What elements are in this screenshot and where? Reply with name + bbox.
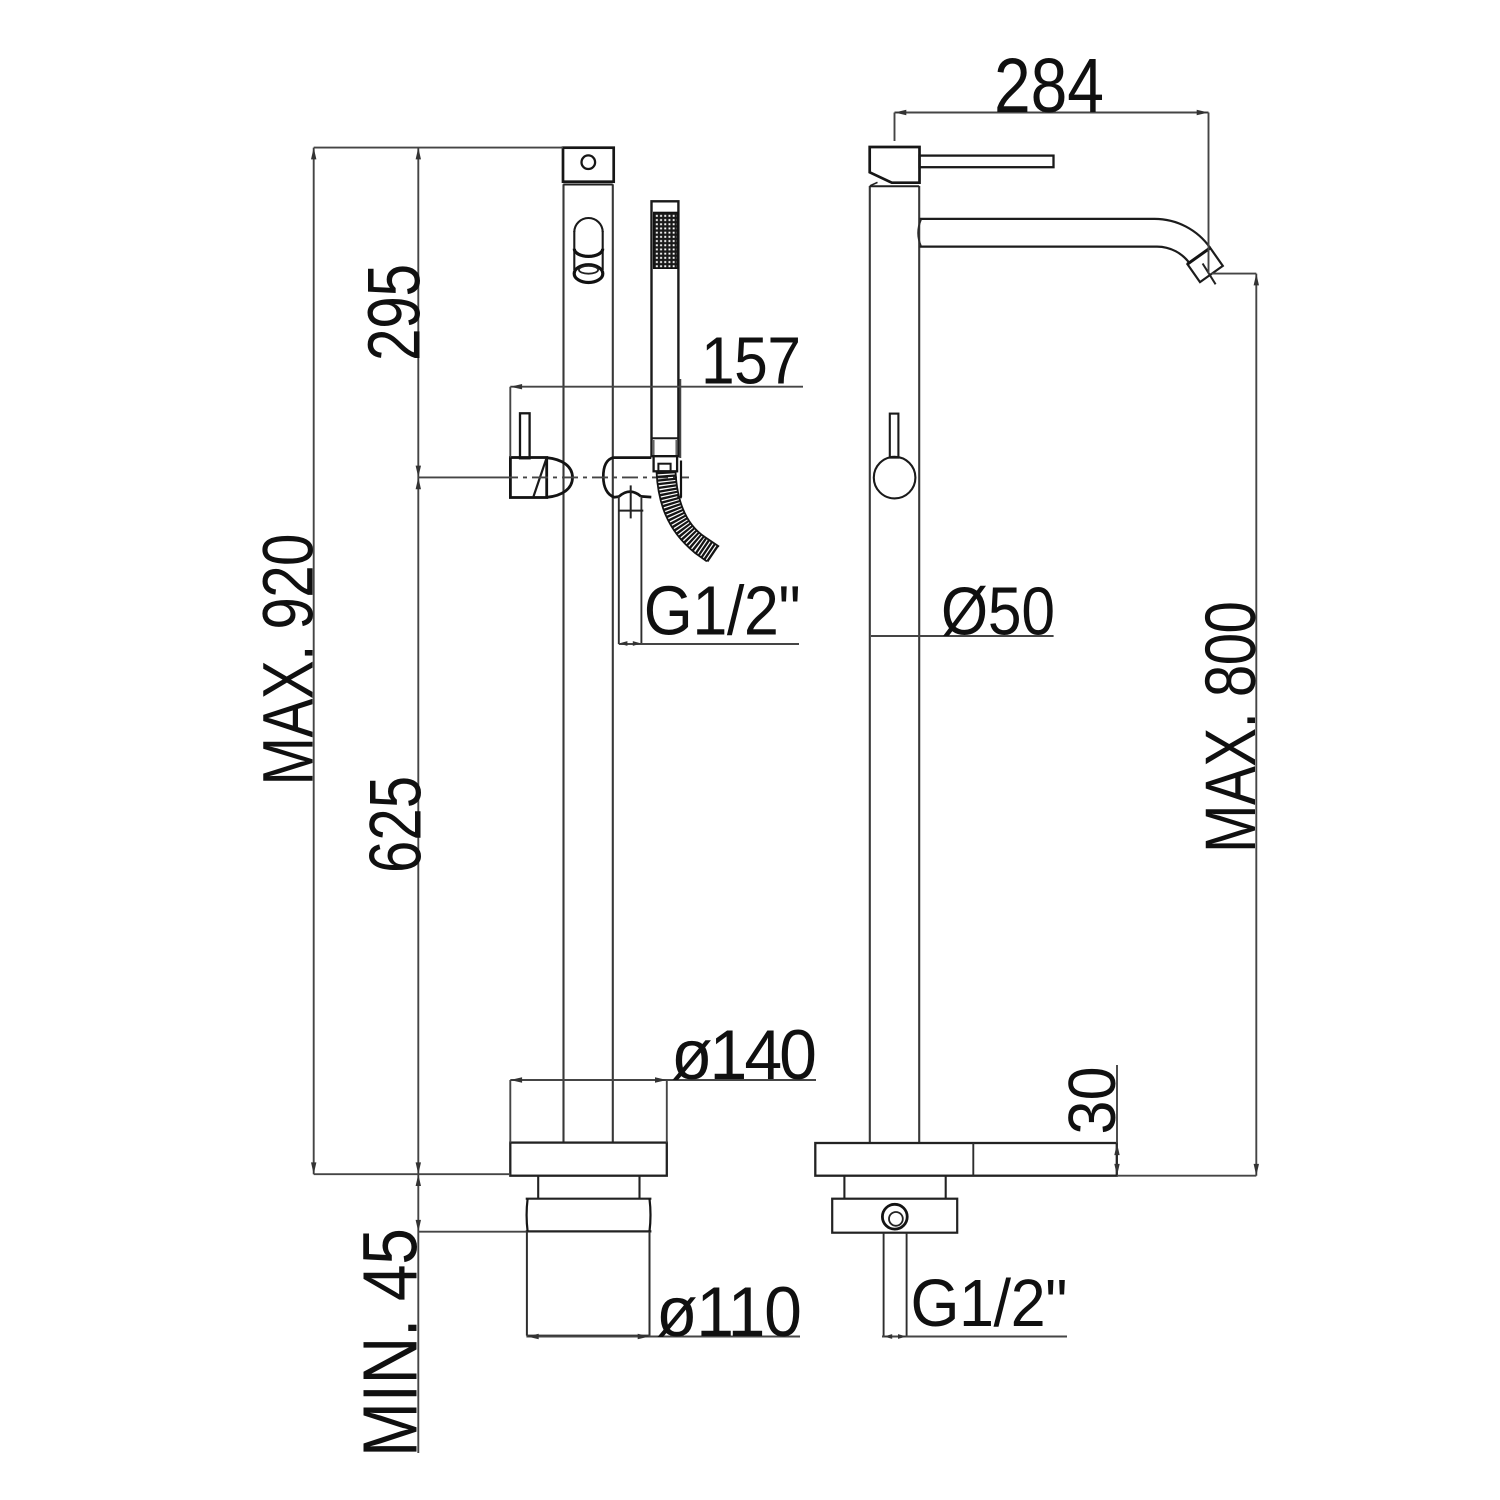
arrowhead 295 bottom [416,466,421,478]
handle collar lines [652,437,679,439]
157 left extension drop [509,387,511,458]
284 right extension to spout outlet [1208,113,1210,274]
arrowhead 625 bottom [416,1162,421,1174]
arrowhead dia110 left [527,1334,539,1339]
top extension line, left view [314,147,563,149]
dia140 dimension line [510,1079,816,1081]
arrowhead dia140 right [655,1077,667,1082]
supply pipe (side) [883,1233,885,1337]
inlet circles on collar [882,1204,907,1229]
base neck (front) [537,1176,539,1199]
284 left extension [894,113,896,142]
centreline through valve and holder [502,476,689,478]
svg-text:157: 157 [701,324,801,398]
arrowhead MIN45 top [416,1174,421,1186]
base plate (side) [815,1143,1117,1176]
arrowhead 625 top [416,477,421,489]
dia140 left extension [509,1080,511,1143]
holder edge visible right of handle [680,461,682,498]
30 dimension line [1116,1065,1118,1143]
base flange plate (front) [510,1143,667,1176]
svg-text:295: 295 [353,264,436,361]
valve dome cap [547,458,573,498]
svg-text:MAX. 800: MAX. 800 [1190,601,1270,853]
svg-text:625: 625 [355,776,437,873]
284 dimension line [895,112,1209,114]
G1/2 right dimension line [882,1336,1067,1338]
floor extension, right view [1117,1175,1257,1177]
hose drop pipe below holder [618,497,620,644]
column body (side view) [869,186,871,1143]
hand shower handle [652,201,679,456]
arrowhead MIN45 bottom [416,1220,421,1232]
157 dimension line [510,386,803,388]
arrowhead MAX920 top [311,148,316,160]
arrowhead 30 bottom [1114,1164,1119,1176]
aerator nozzle (rotated) [1187,248,1222,282]
svg-text:G1/2": G1/2" [644,573,801,650]
bottom cylinder (front) [526,1231,528,1335]
arrowhead 284 left [895,110,907,115]
arrowhead dia140 left [510,1077,522,1082]
flexible hose (ribbed) [666,472,714,555]
arrowhead 295 top [416,148,421,160]
svg-text:Ø50: Ø50 [941,573,1055,649]
screw hole in head [582,155,596,169]
svg-text:284: 284 [994,43,1104,129]
svg-text:30: 30 [1054,1067,1129,1135]
MAX 920 dimension line [313,148,315,1175]
arrowhead 30 top [1114,1143,1119,1155]
svg-text:ø140: ø140 [671,1015,817,1095]
lever handle bar (side) [920,156,1054,168]
arrowhead MAX800 top [1254,274,1259,286]
arrowhead 284 right [1197,110,1209,115]
mixer valve lever (front) [520,413,530,458]
dia110 dimension line [526,1336,800,1338]
hand-shower holder on column [603,457,619,497]
arrowhead G1/2 left dim, right [633,641,642,646]
MIN45 lower extension [418,1231,526,1233]
mixer valve body (front) [510,458,546,498]
arrowhead MAX920 bottom [311,1162,316,1174]
spout tube (side) [920,218,1155,220]
spray face texture [654,213,678,269]
spout stub (foreshortened, front view) [574,218,602,232]
arrowhead G1/2 left dim, left [619,641,628,646]
base collar (front, barrel sides) [526,1198,652,1200]
295 / 625 / MIN45 dimension line [417,148,419,1453]
floor extension, left view [314,1173,511,1175]
arrowhead 157 left [510,384,522,389]
svg-text:MAX. 920: MAX. 920 [248,534,328,786]
top mounting head (front) [563,148,614,182]
boundary line at valve axis [418,476,502,478]
G1/2 left dimension line [619,643,799,645]
outlet tick mark [1203,264,1216,285]
base neck (side) [843,1176,845,1199]
base collar (side) [832,1199,957,1233]
arrowhead MAX800 bottom [1254,1164,1259,1176]
dia50 leader line [871,635,1054,637]
small centre cross on drop pipe [630,485,632,518]
spout root cap arc [918,220,921,247]
outlet level extension [1212,273,1257,275]
svg-text:ø110: ø110 [656,1272,802,1352]
157 right extension [679,379,681,458]
spout curved end [1155,219,1211,248]
hose connector nut [654,456,678,471]
svg-text:G1/2": G1/2" [911,1265,1068,1340]
valve knob circle (side view) [874,457,916,499]
svg-text:MIN. 45: MIN. 45 [348,1228,434,1457]
top mixer head (side) with slanted notch [870,147,920,183]
arrowhead G1/2 right dim, left [884,1334,893,1339]
arrowhead G1/2 right dim, right [898,1334,907,1339]
MAX 800 dimension line [1255,274,1257,1176]
valve stem (side view) [890,414,899,458]
valve internal diagonal [534,459,547,497]
column body (front view) [562,184,564,1142]
dia140 right extension [666,1080,668,1143]
arrowhead dia110 right [638,1334,650,1339]
